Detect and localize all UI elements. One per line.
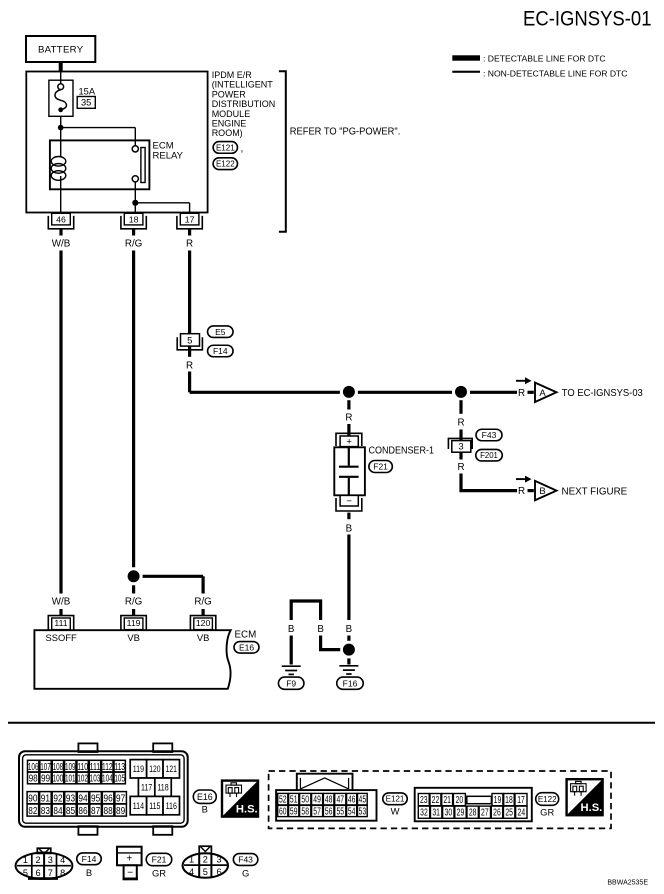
svg-text:2: 2 [35,855,40,865]
svg-text:115: 115 [149,800,160,811]
svg-text:84: 84 [53,806,62,817]
svg-text:17: 17 [517,795,525,806]
svg-text:F9: F9 [286,678,296,688]
svg-text:1: 1 [23,855,28,865]
svg-text:114: 114 [133,800,144,811]
svg-text:3: 3 [48,855,53,865]
svg-text:ENGINE: ENGINE [212,119,247,129]
wire stub below pin 3 [459,453,462,460]
svg-text:8: 8 [60,868,65,878]
svg-text:B: B [202,804,208,815]
svg-text:120: 120 [149,763,160,774]
svg-text:55: 55 [336,807,344,818]
connector badge E122 face [536,793,559,806]
wire dot to ground F16 [347,658,350,664]
svg-text:46: 46 [56,214,66,224]
svg-text:F14: F14 [82,854,97,864]
svg-text:,: , [241,144,244,155]
svg-text:95: 95 [91,793,100,804]
svg-text:E121: E121 [386,795,405,804]
inline connector pin 3 (F43/F201) [448,438,472,449]
svg-text:96: 96 [104,793,113,804]
wire dot2 down [459,400,462,414]
connector badge E16 face [193,790,216,803]
svg-text:G: G [242,868,249,879]
svg-text:93: 93 [66,793,75,804]
svg-text:92: 92 [53,793,62,804]
connector badge F201 [476,449,503,461]
terminal 111 [52,618,71,630]
terminal 18 [124,213,143,225]
svg-text:111: 111 [54,618,67,628]
svg-text:+: + [346,436,352,447]
svg-text:27: 27 [481,808,489,819]
E121 pin grid [278,793,288,805]
F43 connector face [199,846,211,853]
svg-text:30: 30 [445,808,453,819]
svg-text:49: 49 [313,795,321,806]
svg-text:IPDM E/R: IPDM E/R [212,70,253,80]
connector badge F43 face [233,854,258,866]
svg-text:32: 32 [420,808,428,819]
svg-text:102: 102 [77,774,88,785]
svg-text:88: 88 [104,806,113,817]
svg-text:POWER: POWER [212,89,247,99]
svg-text:100: 100 [53,774,64,785]
svg-text:50: 50 [301,795,309,806]
H.S. box left [222,781,258,817]
connector tab bottom [153,826,172,835]
connector badge E16 diagram [234,642,259,654]
svg-text:7: 7 [48,868,53,878]
svg-text:19: 19 [494,795,502,806]
svg-text:116: 116 [166,800,177,811]
svg-text:E5: E5 [215,327,226,337]
wire B to ground F9 [290,636,293,665]
svg-text:51: 51 [290,795,298,806]
svg-text:4: 4 [189,867,194,877]
wire junction to relay coil [60,128,62,157]
svg-text:54: 54 [348,807,356,818]
wire junction to terminal 17 [135,202,189,204]
svg-text:W/B: W/B [52,597,71,608]
ECM connector face E16 [19,751,188,827]
svg-text:H.S.: H.S. [236,803,258,815]
wire stub below condenser [347,513,350,520]
svg-text:R: R [518,486,525,497]
svg-text:B: B [86,867,92,878]
svg-text:−: − [346,496,352,507]
svg-text:E122: E122 [216,160,235,169]
off-page triangle A [516,380,526,382]
svg-text:W: W [391,806,400,817]
svg-text:56: 56 [325,807,333,818]
svg-text:EC-IGNSYS-01: EC-IGNSYS-01 [523,7,652,30]
svg-text:W/B: W/B [52,238,71,249]
svg-text:VB: VB [127,632,140,643]
condenser-1 body [334,447,365,495]
IPDM E/R box [26,72,207,213]
junction dot ground [343,644,355,656]
svg-text:26: 26 [493,808,501,819]
svg-text:F21: F21 [373,462,388,472]
R bus horizontal wire [190,391,517,394]
E122 pin grid [418,794,429,806]
svg-text:F16: F16 [343,678,358,688]
svg-text:H.S.: H.S. [581,802,603,814]
svg-text:113: 113 [114,762,125,773]
svg-text:25: 25 [505,808,513,819]
svg-text:21: 21 [443,795,451,806]
svg-text:108: 108 [53,762,64,773]
svg-text:120: 120 [196,618,211,628]
svg-text:5: 5 [23,868,28,878]
H.S. box right [567,779,603,815]
svg-text:119: 119 [127,618,141,628]
svg-text:119: 119 [133,763,144,774]
wire coil to box bottom [60,176,62,189]
connector badge F43 [476,429,502,441]
wire R vertical upper [188,251,191,334]
svg-text:47: 47 [336,795,344,806]
svg-text:29: 29 [457,808,465,819]
ground wiring B [291,601,320,620]
svg-text:107: 107 [40,762,51,773]
relay contact bar [141,148,145,183]
wire B vertical [347,535,350,621]
svg-text:83: 83 [41,806,50,817]
connector badge F21 face [146,853,172,865]
svg-text:ECM: ECM [235,630,257,641]
connector badge F14 [208,345,234,357]
connector badge E122 [213,158,237,170]
svg-text:103: 103 [90,774,101,785]
svg-text:60: 60 [279,807,287,818]
refer-to bracket [279,71,286,231]
svg-text:57: 57 [313,807,321,818]
svg-text:B: B [539,486,545,497]
connector tab top [153,743,172,752]
svg-text:REFER TO "PG-POWER".: REFER TO "PG-POWER". [290,127,401,138]
wire down to relay contact top [134,128,136,146]
svg-text:94: 94 [78,793,87,804]
legend detectable line sample [452,55,480,60]
svg-text:R: R [457,462,464,473]
wire IPDM top to fuse [60,72,62,84]
terminal 120 [194,618,213,630]
svg-text:104: 104 [102,774,113,785]
wire battery to IPDM [59,62,63,72]
svg-text:TO EC-IGNSYS-03: TO EC-IGNSYS-03 [562,388,644,399]
svg-text:98: 98 [29,774,38,785]
svg-text:6: 6 [216,867,221,877]
wire R to corner [188,372,191,393]
junction dot R/G branch [128,570,140,582]
wire fuse to junction [60,116,62,127]
svg-text:53: 53 [359,807,367,818]
svg-text:31: 31 [432,808,440,819]
svg-text:17: 17 [185,214,195,224]
svg-text:F14: F14 [213,346,228,356]
wire R/G branch down [202,576,205,593]
svg-text:BBWA2535E: BBWA2535E [607,880,648,887]
wire junction to relay contact [61,127,136,129]
svg-text:97: 97 [116,793,125,804]
svg-text:B: B [317,624,324,635]
svg-text:6: 6 [35,868,40,878]
svg-text:RELAY: RELAY [153,150,184,161]
svg-text:E122: E122 [538,795,557,804]
svg-text:90: 90 [28,793,37,804]
wire stub 46 [59,228,62,235]
svg-text:NEXT FIGURE: NEXT FIGURE [562,486,628,497]
svg-text:(INTELLIGENT: (INTELLIGENT [212,80,274,90]
svg-text:R: R [186,238,193,249]
fuse 15A #35 [49,80,73,116]
svg-text:R: R [345,412,352,423]
svg-text:105: 105 [114,774,125,785]
legend non-detectable line sample [452,71,480,73]
svg-text:3: 3 [458,441,463,452]
ECM pin grid upper-left [28,760,39,772]
svg-text:3: 3 [216,855,221,865]
svg-text:22: 22 [432,795,440,806]
svg-text:−: − [127,868,133,879]
svg-text:E16: E16 [197,792,213,802]
svg-text:112: 112 [102,762,113,773]
F21 connector face [117,847,142,866]
svg-text:99: 99 [41,774,50,785]
svg-text:46: 46 [348,795,356,806]
svg-text:SSOFF: SSOFF [46,632,78,643]
svg-text:1: 1 [189,855,194,865]
dashed group box [269,771,611,828]
svg-text:B: B [346,624,353,635]
ECM pin grid right [130,760,146,778]
svg-text:18: 18 [505,795,513,806]
svg-text:E121: E121 [216,143,235,152]
ground symbol F16 [339,666,358,674]
svg-text:MODULE: MODULE [212,109,251,119]
svg-text:111: 111 [90,762,101,773]
svg-text:48: 48 [325,795,333,806]
ground symbol F9 [282,666,301,674]
svg-text:87: 87 [91,806,100,817]
svg-text:52: 52 [279,795,287,806]
svg-text:+: + [126,854,132,865]
svg-text:45: 45 [359,795,367,806]
svg-text:35: 35 [81,98,91,108]
connector badge F9 [278,677,304,689]
svg-text:R/G: R/G [125,238,142,249]
terminal 46 [52,213,71,225]
svg-text:: DETECTABLE LINE FOR DTC: : DETECTABLE LINE FOR DTC [483,53,606,63]
svg-text:15A: 15A [79,86,96,96]
svg-text:5: 5 [203,867,208,877]
svg-text:F43: F43 [238,855,253,865]
svg-text:121: 121 [166,763,177,774]
ECM box [34,630,230,689]
svg-text:28: 28 [469,808,477,819]
svg-text:101: 101 [65,774,76,785]
junction dot R bus / F43 branch [455,386,467,398]
svg-text:R: R [186,360,193,371]
connector badge F21 [369,461,393,473]
fuse number 35 box [77,97,95,109]
svg-text:DISTRIBUTION: DISTRIBUTION [212,99,276,109]
svg-text:B: B [346,524,353,535]
svg-text:E16: E16 [239,642,254,652]
svg-text:R: R [457,418,464,429]
off-page triangle B [516,478,526,480]
junction dot below fuse [58,125,64,131]
connector badge E121 [213,142,237,154]
svg-text:F21: F21 [152,855,167,865]
wire relay contact to junction [134,182,136,203]
svg-text:85: 85 [66,806,75,817]
terminal 119 [124,618,143,630]
wire stub 17 [188,228,191,235]
ECM relay box [50,140,149,189]
wire stub below pin 5 [188,346,191,357]
svg-text:20: 20 [456,795,464,806]
svg-text:ROOM): ROOM) [212,128,243,138]
svg-text:R/G: R/G [194,597,211,608]
svg-text:24: 24 [518,808,526,819]
capacitor symbol [339,448,359,495]
connector tab bottom [78,826,97,835]
wire W/B vertical [59,251,62,594]
svg-text:82: 82 [28,806,37,817]
svg-text:4: 4 [60,855,65,865]
wire R/G vertical [132,251,135,568]
svg-text:23: 23 [420,795,428,806]
wire junction to terminal 18 [134,203,136,213]
svg-text:: NON-DETECTABLE LINE FOR DTC: : NON-DETECTABLE LINE FOR DTC [483,69,628,79]
svg-text:86: 86 [78,806,87,817]
svg-text:BATTERY: BATTERY [38,44,84,55]
svg-text:18: 18 [129,214,139,224]
svg-text:117: 117 [141,782,152,793]
svg-text:GR: GR [540,807,554,818]
wire coil to terminal 46 [60,189,62,212]
svg-text:110: 110 [77,762,88,773]
svg-text:58: 58 [301,807,309,818]
svg-text:R/G: R/G [125,597,142,608]
wire dot to R label [347,400,350,409]
svg-text:2: 2 [203,855,208,865]
svg-text:GR: GR [152,868,166,879]
inline connector pin 5 (E5/F14) [181,334,200,346]
condenser plus terminal [336,433,362,446]
svg-text:106: 106 [28,762,39,773]
connector badge E121 face [383,793,408,805]
condenser minus terminal [340,495,358,506]
separator line [8,722,655,724]
connector tab top [78,743,97,752]
connector badge E5 [208,326,234,338]
svg-text:59: 59 [290,807,298,818]
connector badge F16 [337,677,364,689]
connector badge F14 face [77,853,102,865]
junction dot below relay [132,200,138,206]
svg-text:B: B [288,624,295,635]
svg-text:91: 91 [41,793,50,804]
relay contact [132,146,138,152]
svg-text:F201: F201 [480,451,498,460]
junction dot R bus / condenser [343,386,355,398]
terminal 17 [180,213,199,225]
svg-text:A: A [539,388,546,399]
ECM pin grid lower-left [27,792,39,804]
battery box [26,36,95,62]
svg-text:109: 109 [65,762,76,773]
svg-text:CONDENSER-1: CONDENSER-1 [369,445,435,456]
relay coil [51,157,66,181]
wire R/G branch horizontal [143,575,204,578]
svg-text:VB: VB [197,632,210,643]
svg-text:5: 5 [187,336,192,347]
E122 blank key slot [467,796,492,803]
F14 connector face [37,848,51,853]
svg-text:118: 118 [157,782,168,793]
wire stub 18 [132,228,135,235]
svg-text:89: 89 [116,806,125,817]
svg-text:F43: F43 [482,430,497,440]
svg-text:R: R [518,388,525,399]
E121 connector face [276,790,376,821]
E122 connector face [415,788,532,822]
